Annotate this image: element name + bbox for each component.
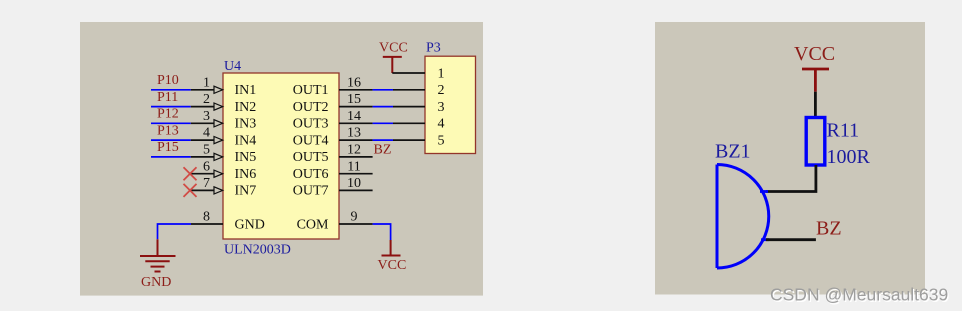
svg-text:IN2: IN2 bbox=[235, 100, 257, 115]
pin 12 bbox=[339, 143, 373, 158]
pin 11 bbox=[339, 159, 373, 174]
svg-text:9: 9 bbox=[351, 210, 358, 225]
wire pin16 to P3-2 bbox=[373, 89, 393, 91]
svg-text:P11: P11 bbox=[157, 90, 178, 105]
P3 pin 3 bbox=[393, 100, 445, 115]
svg-text:11: 11 bbox=[347, 159, 360, 174]
connector P3 body bbox=[425, 56, 476, 153]
svg-text:OUT4: OUT4 bbox=[293, 133, 329, 148]
svg-text:2: 2 bbox=[203, 92, 210, 107]
wire pin14 to P3-4 bbox=[373, 122, 393, 124]
svg-text:VCC: VCC bbox=[378, 258, 407, 273]
left schematic panel background bbox=[80, 22, 483, 296]
pin 13 bbox=[339, 126, 373, 141]
svg-text:3: 3 bbox=[438, 100, 445, 115]
pin 1 bbox=[191, 75, 223, 93]
svg-text:COM: COM bbox=[297, 217, 329, 232]
pin 6 bbox=[190, 159, 223, 177]
svg-text:OUT5: OUT5 bbox=[293, 150, 329, 165]
pin names IN1-IN7 bbox=[235, 83, 265, 232]
svg-text:4: 4 bbox=[438, 117, 445, 132]
svg-text:IN4: IN4 bbox=[235, 133, 257, 148]
svg-text:8: 8 bbox=[203, 210, 210, 225]
svg-text:2: 2 bbox=[438, 83, 445, 98]
svg-text:IN1: IN1 bbox=[235, 83, 257, 98]
svg-text:VCC: VCC bbox=[794, 43, 835, 65]
pin 9 bbox=[339, 210, 373, 225]
resistor R11 bbox=[806, 118, 825, 166]
ground symbol bbox=[140, 239, 176, 271]
svg-text:CSDN @Meursault639: CSDN @Meursault639 bbox=[770, 285, 948, 305]
svg-text:OUT1: OUT1 bbox=[293, 83, 329, 98]
svg-text:10: 10 bbox=[347, 176, 361, 191]
wire net P12 bbox=[151, 122, 191, 124]
svg-text:BZ: BZ bbox=[374, 143, 392, 158]
svg-text:5: 5 bbox=[203, 143, 210, 158]
pin 2 bbox=[191, 92, 223, 110]
pin 5 bbox=[191, 143, 223, 161]
svg-text:P3: P3 bbox=[426, 41, 441, 56]
wire R11 to buzzer bbox=[766, 165, 816, 192]
P3 pin 4 bbox=[393, 117, 445, 132]
wire net P13 bbox=[151, 139, 191, 141]
pin 14 bbox=[339, 109, 373, 124]
svg-text:IN3: IN3 bbox=[235, 117, 257, 132]
svg-text:4: 4 bbox=[203, 126, 210, 141]
svg-text:OUT7: OUT7 bbox=[293, 184, 329, 199]
power port VCC (buzzer) bbox=[802, 69, 829, 92]
svg-text:7: 7 bbox=[203, 176, 210, 191]
pin 3 bbox=[191, 109, 223, 127]
no-ERC cross on pin 7 bbox=[184, 184, 197, 197]
pin names OUT1-OUT7, COM bbox=[293, 83, 329, 232]
svg-text:BZ: BZ bbox=[816, 218, 842, 240]
svg-text:3: 3 bbox=[203, 109, 210, 124]
svg-text:GND: GND bbox=[235, 217, 265, 232]
power port VCC (bottom) bbox=[382, 240, 401, 256]
svg-text:100R: 100R bbox=[827, 146, 871, 168]
svg-text:5: 5 bbox=[438, 133, 445, 148]
svg-text:13: 13 bbox=[347, 126, 361, 141]
svg-text:OUT6: OUT6 bbox=[293, 167, 329, 182]
svg-text:BZ1: BZ1 bbox=[715, 141, 751, 163]
svg-text:R11: R11 bbox=[827, 120, 860, 142]
svg-text:1: 1 bbox=[203, 75, 210, 90]
pin 10 bbox=[339, 176, 373, 191]
svg-text:16: 16 bbox=[347, 75, 361, 90]
P3 pin 2 bbox=[393, 83, 445, 98]
svg-text:OUT3: OUT3 bbox=[293, 117, 329, 132]
wire pin13 to P3-5 bbox=[373, 139, 393, 141]
wire net P15 bbox=[151, 156, 191, 158]
wire net P10 bbox=[151, 89, 191, 91]
buzzer BZ1 bbox=[717, 165, 769, 269]
buzzer pin stub (bottom) bbox=[761, 238, 769, 241]
P3 pin 1 bbox=[392, 66, 444, 81]
svg-text:P13: P13 bbox=[157, 123, 179, 138]
svg-text:ULN2003D: ULN2003D bbox=[224, 243, 291, 258]
svg-text:15: 15 bbox=[347, 92, 361, 107]
op-amp U4 ULN2003D body bbox=[223, 73, 339, 239]
P3 pin 5 bbox=[393, 133, 445, 148]
pin 16 bbox=[339, 75, 373, 90]
pin 8 bbox=[191, 210, 223, 225]
svg-text:1: 1 bbox=[438, 66, 445, 81]
wire pin9 to VCC bbox=[373, 224, 391, 240]
wire pin15 to P3-3 bbox=[373, 106, 393, 108]
wire VCC to R11 bbox=[814, 92, 817, 118]
buzzer pin stub (top) bbox=[760, 190, 768, 193]
svg-text:P10: P10 bbox=[157, 73, 179, 88]
svg-text:P15: P15 bbox=[157, 140, 179, 155]
svg-text:IN5: IN5 bbox=[235, 150, 257, 165]
svg-text:P12: P12 bbox=[157, 107, 179, 122]
svg-text:IN7: IN7 bbox=[235, 184, 257, 199]
pin 4 bbox=[191, 126, 223, 144]
svg-text:IN6: IN6 bbox=[235, 167, 257, 182]
svg-text:VCC: VCC bbox=[379, 41, 408, 56]
svg-text:U4: U4 bbox=[224, 59, 241, 74]
svg-text:6: 6 bbox=[203, 159, 210, 174]
wire pin8 to GND bbox=[158, 224, 192, 239]
no-ERC cross on pin 6 bbox=[184, 167, 197, 180]
pin 7 bbox=[190, 176, 223, 194]
power port VCC (top) bbox=[383, 57, 402, 73]
wire buzzer to BZ bbox=[766, 238, 816, 241]
wire net P11 bbox=[151, 106, 191, 108]
right schematic panel background bbox=[655, 22, 925, 295]
pin 15 bbox=[339, 92, 373, 107]
svg-text:14: 14 bbox=[347, 109, 361, 124]
svg-text:12: 12 bbox=[347, 143, 361, 158]
svg-text:GND: GND bbox=[141, 275, 171, 290]
svg-text:OUT2: OUT2 bbox=[293, 100, 329, 115]
